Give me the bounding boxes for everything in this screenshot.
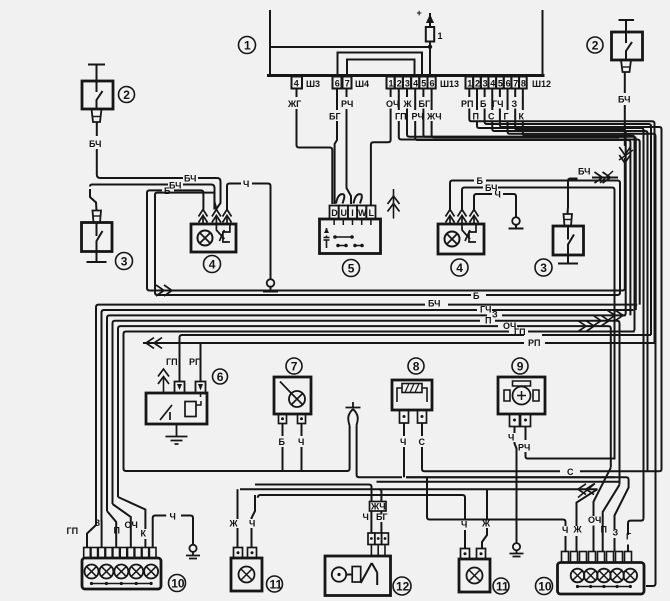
svg-text:П: П <box>114 526 120 536</box>
wire OCh to pin7 <box>113 504 131 548</box>
svg-text:4: 4 <box>456 261 463 275</box>
chevrons on L4 <box>578 484 594 495</box>
item 10 right: pin strip <box>562 552 569 563</box>
svg-text:5: 5 <box>348 262 355 276</box>
connector Sh3 pin 4 <box>292 77 303 89</box>
switch 2 right: T terminal <box>619 20 635 32</box>
wire BCh from switch 2 left down <box>96 122 98 136</box>
item 10 right: lamps <box>571 569 585 583</box>
svg-text:БЧ: БЧ <box>618 95 630 105</box>
svg-text:1: 1 <box>389 79 394 89</box>
svg-text:БГ: БГ <box>329 112 341 122</box>
bus BCh2 y304.6 <box>448 304 637 306</box>
wire Sh12-2 P <box>476 89 478 111</box>
terminal ring right-middle <box>512 217 520 225</box>
switch 2 right: connector <box>621 60 631 72</box>
svg-text:10: 10 <box>171 577 185 591</box>
svg-text:7: 7 <box>513 79 518 89</box>
wire BCh from item4R pin2 <box>462 188 483 210</box>
svg-text:1: 1 <box>244 39 251 53</box>
item 7: switch diag <box>280 382 291 394</box>
svg-text:Ч: Ч <box>461 520 467 530</box>
wire loop Sh4-6 to Sh13-5 <box>338 53 423 76</box>
chevrons on BCh right line <box>595 172 611 183</box>
wire Sh12-3 B <box>484 89 486 98</box>
item 7: body <box>274 377 311 414</box>
circled 2 right <box>587 37 603 53</box>
switch 2 right: contact <box>626 32 632 60</box>
wire L3b continuation right <box>255 485 372 502</box>
wire Z to pin3 <box>101 518 103 526</box>
svg-text:ГЧ: ГЧ <box>480 305 491 315</box>
item 3 left: contact <box>97 223 103 252</box>
circled 12 <box>393 577 411 595</box>
svg-text:7: 7 <box>291 360 298 374</box>
wire B line to item4 pin1 <box>174 190 203 209</box>
svg-text:6: 6 <box>430 79 435 89</box>
circled 3 left <box>116 253 133 270</box>
item 5: regulator symbol <box>324 228 330 248</box>
svg-text:6: 6 <box>217 370 224 384</box>
svg-text:Ч: Ч <box>562 525 568 535</box>
svg-text:ЖЧ: ЖЧ <box>370 502 386 512</box>
item 3 right: contact <box>568 226 574 255</box>
terminal ring left-middle <box>267 279 275 287</box>
item 8: pins <box>400 410 409 423</box>
wire GP to pin1 <box>87 525 96 548</box>
item 3 left: body <box>82 223 113 252</box>
item 10 left: lamps <box>85 565 99 579</box>
svg-text:+: + <box>417 8 422 18</box>
svg-text:Ч: Ч <box>170 512 176 522</box>
svg-text:5: 5 <box>421 79 426 89</box>
svg-text:С: С <box>488 112 495 122</box>
wire riser right of top bus <box>542 11 544 75</box>
item 4 left: body <box>191 224 236 252</box>
svg-text:Б: Б <box>477 176 484 186</box>
circled 6 <box>213 369 228 384</box>
item 6: pin GP box <box>175 382 185 394</box>
svg-text:Ш12: Ш12 <box>532 79 551 89</box>
item 5: body <box>320 219 381 254</box>
item 4 left: switch glyph <box>216 224 230 242</box>
item 5: pin row D U I W L <box>330 206 339 220</box>
item 3 right: body <box>553 226 584 255</box>
svg-text:З: З <box>492 310 498 320</box>
svg-text:БЧ: БЧ <box>169 181 181 191</box>
svg-text:7: 7 <box>345 79 350 89</box>
svg-text:Ч: Ч <box>249 519 255 529</box>
svg-text:Б: Б <box>279 437 286 447</box>
node fuse junction <box>428 45 432 49</box>
item 3 left: connector <box>93 211 102 223</box>
wire Sh12-5 GCh <box>499 89 501 98</box>
svg-text:Ж: Ж <box>403 99 413 109</box>
svg-text:I: I <box>351 208 354 218</box>
svg-text:W: W <box>358 208 367 218</box>
item 3 right: connector <box>564 214 573 226</box>
svg-text:БЧ: БЧ <box>428 299 440 309</box>
wire Sh13-4 RCh <box>414 89 416 111</box>
svg-text:ГП: ГП <box>514 327 526 337</box>
svg-text:Ч: Ч <box>400 437 406 447</box>
svg-text:П: П <box>485 316 491 326</box>
item 6: relay box <box>185 402 196 417</box>
wire ZhG from Sh3-4 <box>296 89 298 98</box>
chevrons on Z line <box>607 310 623 321</box>
item 4 right: lamp <box>445 232 460 247</box>
top bus <box>269 74 544 77</box>
bus P y320.7 <box>495 321 620 485</box>
svg-text:Ч: Ч <box>363 512 369 522</box>
item 10 left: pin strip <box>84 548 91 559</box>
svg-text:6: 6 <box>335 79 340 89</box>
wire L2 right end corner down diagonal to pin Z item10R <box>406 477 629 529</box>
svg-text:З: З <box>512 99 518 109</box>
svg-text:8: 8 <box>521 79 526 89</box>
chevrons on RP line left <box>146 338 162 349</box>
svg-text:Ч: Ч <box>495 190 501 200</box>
circled 1 <box>239 37 256 54</box>
switch 2 left: T terminal <box>88 65 105 82</box>
chevrons on BCh bus <box>156 285 172 296</box>
svg-text:12: 12 <box>396 580 410 594</box>
svg-text:Ж: Ж <box>229 519 239 529</box>
svg-text:Ж: Ж <box>481 519 491 529</box>
svg-text:П: П <box>473 112 479 122</box>
svg-text:БГ: БГ <box>376 512 388 522</box>
svg-text:1: 1 <box>467 79 472 89</box>
item 6: switch glyph <box>160 405 172 420</box>
wire B from item4R pin1 <box>450 181 474 210</box>
svg-text:З: З <box>95 518 101 528</box>
wire Sh13-6 ZhCh <box>431 89 433 111</box>
item 5: internal pins ticks <box>334 219 371 225</box>
down chevrons on BCh right <box>619 147 630 163</box>
circled 9 <box>512 358 528 374</box>
wire Ch ground loop item10L <box>153 516 167 548</box>
wire loop Sh4-7 to Sh13-4 <box>347 60 415 76</box>
wire G item10R from Sh12 P riser <box>628 518 644 551</box>
switch 2 right: body <box>612 32 643 60</box>
wire riser left of top bus <box>269 11 271 75</box>
circled 11 right <box>493 578 509 594</box>
item 5: contacts row1 <box>335 236 352 238</box>
item 12: inline connector ZhCh <box>325 502 391 596</box>
item 12: pins <box>368 533 375 545</box>
svg-text:РЧ: РЧ <box>412 112 424 122</box>
wire BCh from switch 2 right down <box>624 72 626 93</box>
wire fuse down to Sh13-6 <box>429 47 431 75</box>
svg-text:Ч: Ч <box>298 437 304 447</box>
wire Ch item9 to ring terminal <box>514 427 516 434</box>
wire Sh12-7 Z <box>514 89 516 98</box>
svg-text:2: 2 <box>475 79 480 89</box>
svg-text:2: 2 <box>123 88 130 102</box>
circled 10 right <box>536 578 553 595</box>
svg-text:4: 4 <box>413 79 418 89</box>
bus BCh y290.5 <box>430 290 620 292</box>
bus OCh y326.1 <box>517 326 611 467</box>
wire Zh item11b <box>486 489 488 519</box>
item 4 left: lamp <box>198 231 213 246</box>
svg-text:Б: Б <box>164 186 171 196</box>
item 10 right: body <box>558 563 645 595</box>
chevrons on OCh line <box>578 321 594 332</box>
svg-text:Ж: Ж <box>573 525 583 535</box>
item 10 left: body <box>82 558 161 589</box>
item 4 right: body <box>438 224 484 254</box>
item 6: harness chevron <box>163 377 165 393</box>
svg-text:3: 3 <box>121 255 128 269</box>
svg-text:РП: РП <box>461 99 473 109</box>
svg-text:Ч: Ч <box>243 179 249 189</box>
item 6: body <box>146 393 207 424</box>
svg-text:Б: Б <box>480 99 487 109</box>
circled 5 <box>343 260 360 277</box>
wire BCh from item3R connector up <box>568 179 578 215</box>
svg-text:П: П <box>601 525 607 535</box>
wire RCh item9 down right <box>525 427 527 441</box>
svg-text:ОЧ: ОЧ <box>588 515 601 525</box>
svg-text:D: D <box>331 208 338 218</box>
item 10 right: inner bus <box>578 586 631 588</box>
switch 2 left: body <box>82 81 113 109</box>
svg-text:РЧ: РЧ <box>341 99 353 109</box>
item 6: ground <box>166 424 188 444</box>
circled 4 right <box>451 259 468 276</box>
switch 2 left: connector <box>92 109 102 122</box>
bus GP y335 <box>542 334 651 336</box>
item 5: wire fin hook 2 <box>354 194 362 203</box>
wire Ch item8 down <box>403 423 405 436</box>
wire BCh2 from item3 connector <box>90 189 97 211</box>
wire L4 branch down to item12 connector <box>379 489 382 501</box>
svg-text:11: 11 <box>496 580 509 594</box>
wire Zh item11a down <box>237 489 239 519</box>
bus GP2 y331.5 <box>528 331 635 333</box>
item 3 right: ground <box>558 255 578 264</box>
svg-text:6: 6 <box>506 79 511 89</box>
svg-text:10: 10 <box>538 580 552 594</box>
item 8: body <box>392 380 432 410</box>
svg-text:РП: РП <box>189 357 201 367</box>
svg-text:8: 8 <box>413 360 420 374</box>
circled 8 <box>408 358 424 374</box>
wire Ch from item4L pin3 to terminal <box>227 184 241 210</box>
item 9: motor circle <box>513 387 531 405</box>
wire P to pin5 <box>107 511 116 548</box>
circled 2 left <box>119 87 135 103</box>
RP drop to item6 <box>200 343 202 382</box>
item 7: pins <box>279 414 287 424</box>
item 5: contacts row2 <box>338 245 362 247</box>
wire L3 from item11a Ch to item12 connector <box>258 495 465 520</box>
svg-text:ОЧ: ОЧ <box>125 520 138 530</box>
wire fuse feed horizontal <box>270 46 430 48</box>
svg-text:Ш13: Ш13 <box>440 79 459 89</box>
wire from Sh13-1 to item5 pin L <box>390 89 392 98</box>
svg-text:БЧ: БЧ <box>578 167 590 177</box>
svg-text:К: К <box>141 529 147 539</box>
svg-text:9: 9 <box>517 360 524 374</box>
svg-text:Г: Г <box>504 112 509 122</box>
wire L4 from item11a Zh right <box>240 488 598 490</box>
item 4 right: switch glyph <box>462 224 476 242</box>
svg-text:3: 3 <box>405 79 410 89</box>
wire Sh13-5 BG <box>422 89 424 98</box>
svg-text:Ч: Ч <box>508 433 514 443</box>
wire Sh12-6 G <box>507 89 509 111</box>
circled 3 right <box>535 259 552 276</box>
svg-text:Ш4: Ш4 <box>355 79 369 89</box>
svg-text:ГП: ГП <box>395 112 407 122</box>
wire riser 155 <box>155 193 214 295</box>
item 12: motor glyph <box>332 567 346 581</box>
wire B item7 down <box>282 424 284 437</box>
svg-text:РЧ: РЧ <box>518 443 530 453</box>
bus B y295 <box>486 294 618 296</box>
svg-text:ГЧ: ГЧ <box>492 99 503 109</box>
bus RP y343 <box>545 342 655 344</box>
svg-text:Ш3: Ш3 <box>306 79 320 89</box>
item 7: lamp <box>289 391 305 407</box>
svg-text:L: L <box>369 208 375 218</box>
wire Sh12-1 RP <box>468 89 470 98</box>
chevrons on P line <box>593 315 609 326</box>
svg-text:4: 4 <box>209 258 216 272</box>
item 10 left: inner bus <box>92 583 152 585</box>
wire Sh13-2 GP <box>398 89 400 111</box>
item 4 left: connector chevrons <box>199 210 208 223</box>
svg-text:1: 1 <box>438 31 443 41</box>
svg-text:З: З <box>613 528 619 538</box>
circled 4 left <box>204 256 221 273</box>
connector Sh4 pins 6 7 <box>333 77 352 89</box>
circled 7 <box>286 358 302 374</box>
svg-text:С: С <box>567 467 574 477</box>
svg-text:БЧ: БЧ <box>89 139 101 149</box>
svg-text:ГП: ГП <box>67 526 79 536</box>
switch 2 left: contact <box>97 81 103 109</box>
svg-text:БЧ: БЧ <box>184 174 196 184</box>
item 9: body <box>498 377 545 414</box>
wire BG from Sh4-6 <box>336 89 338 111</box>
item 12: body <box>325 556 391 596</box>
svg-text:ОЧ: ОЧ <box>386 99 399 109</box>
item 4 right: connector chevrons <box>446 210 455 223</box>
svg-text:ЖГ: ЖГ <box>287 99 301 109</box>
svg-text:РП: РП <box>528 338 540 348</box>
connector Sh12 pins 1-8 <box>466 77 527 89</box>
svg-text:4: 4 <box>294 79 299 89</box>
item 6: pin RP box <box>196 382 206 394</box>
svg-text:Б: Б <box>473 291 480 301</box>
svg-text:5: 5 <box>498 79 503 89</box>
svg-text:2: 2 <box>397 79 402 89</box>
svg-text:4: 4 <box>490 79 495 89</box>
wire RCh from Sh4-7 <box>346 89 348 98</box>
svg-text:С: С <box>419 437 426 447</box>
circled 10 left <box>169 575 186 592</box>
bus GCh y310 <box>492 309 633 311</box>
connector Sh13 pins 1-6 <box>387 77 436 89</box>
wire Ch from item4R pin3 to terminal <box>474 194 492 210</box>
wire Sh12-4 S <box>491 89 493 111</box>
wire Sh13-3 Zh <box>406 89 408 98</box>
svg-text:ГП: ГП <box>166 357 178 367</box>
svg-text:11: 11 <box>270 578 283 592</box>
svg-text:2: 2 <box>592 39 599 53</box>
svg-text:U: U <box>341 208 348 218</box>
wire Ch item7 down <box>301 424 303 437</box>
wire L2 branch down to Ch of item10R via y519.5 <box>427 477 566 526</box>
item 9: side tabs <box>504 390 539 401</box>
wire Sh12-8 K <box>522 89 524 111</box>
circled 11 left <box>267 576 283 592</box>
bus Z y315.4 <box>502 314 626 316</box>
item 8: resistor hatched <box>402 384 422 393</box>
fuse 1 <box>426 14 434 46</box>
item 3 left: ground <box>87 252 107 263</box>
harness arrow right of item 5 <box>388 189 400 219</box>
wire S item8 down <box>421 423 423 436</box>
item 9: pins <box>510 414 520 427</box>
svg-text:3: 3 <box>540 261 547 275</box>
svg-text:К: К <box>519 112 525 122</box>
svg-text:БГ: БГ <box>419 99 431 109</box>
wire L4 diagonal down to Zh item10R <box>577 489 598 526</box>
wire K to pin9 <box>118 497 145 529</box>
svg-text:3: 3 <box>483 79 488 89</box>
item 5: wire fin hook 1 <box>336 194 344 203</box>
svg-text:ЖЧ: ЖЧ <box>426 112 442 122</box>
wire Ch item11a down with jog <box>252 495 256 519</box>
